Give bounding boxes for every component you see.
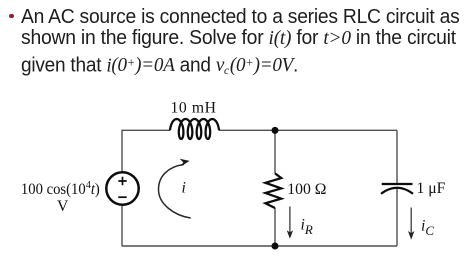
node B bottom junction dot xyxy=(272,243,279,250)
svg-text:1 μF: 1 μF xyxy=(417,180,446,197)
wire right below capacitor xyxy=(396,189,398,246)
wire right above capacitor xyxy=(396,130,398,183)
resistor R zigzag xyxy=(265,173,281,208)
svg-text:100 Ω: 100 Ω xyxy=(287,181,326,198)
wire bottom xyxy=(122,245,397,247)
loop current arrow arc xyxy=(159,164,191,218)
wire middle above resistor xyxy=(274,130,276,173)
inductor L1 coil xyxy=(170,119,219,139)
svg-text:iR: iR xyxy=(301,217,313,238)
text line 2 xyxy=(21,27,456,50)
loop current arrowhead xyxy=(180,159,190,166)
svg-text:i: i xyxy=(182,180,186,197)
svg-text:iC: iC xyxy=(421,218,434,239)
voltage source VS circle xyxy=(106,172,138,204)
wire top-right segment xyxy=(219,129,397,131)
current arrow iC xyxy=(410,208,412,234)
svg-text:10 mH: 10 mH xyxy=(171,100,217,117)
svg-text:V: V xyxy=(57,198,69,215)
voltage source plus sign xyxy=(118,177,126,185)
svg-text:100 cos(104t): 100 cos(104t) xyxy=(21,180,100,198)
capacitor C bottom curved plate xyxy=(381,188,413,194)
bullet xyxy=(9,14,13,18)
wire top-left segment xyxy=(122,130,170,171)
voltage source minus sign xyxy=(118,196,126,198)
wire left below source xyxy=(121,206,123,246)
text line 1 xyxy=(21,6,459,29)
wire middle below resistor xyxy=(274,208,276,246)
capacitor C top plate xyxy=(382,183,413,185)
node A top junction dot xyxy=(272,127,279,134)
current arrow iR xyxy=(289,207,291,233)
text line 3 xyxy=(21,51,298,83)
